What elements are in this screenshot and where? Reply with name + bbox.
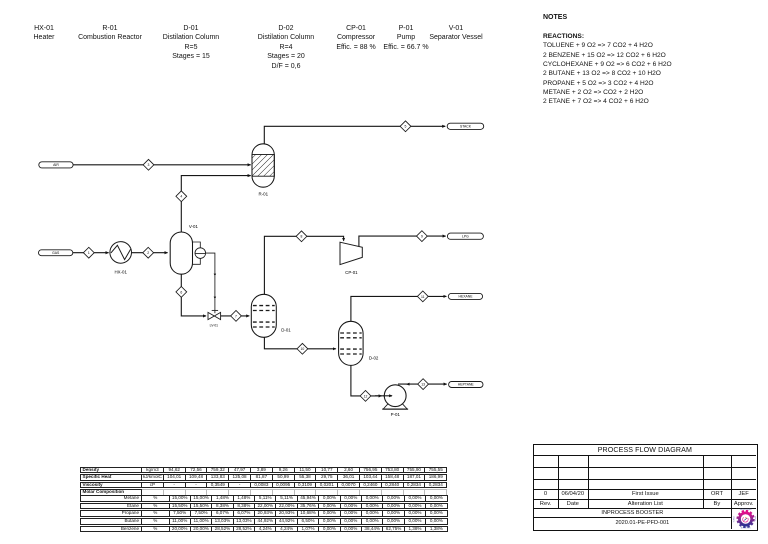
- svg-text:LPG: LPG: [462, 234, 469, 238]
- svg-text:PROC: PROC: [754, 516, 756, 522]
- svg-text:CP-01: CP-01: [345, 270, 358, 275]
- svg-text:1: 1: [88, 251, 90, 255]
- svg-text:HEXANE: HEXANE: [459, 295, 474, 299]
- svg-text:R-01: R-01: [259, 192, 269, 197]
- svg-text:5: 5: [405, 125, 407, 129]
- svg-text:BOOSTER: BOOSTER: [741, 528, 751, 530]
- svg-text:4: 4: [180, 195, 182, 199]
- svg-text:13: 13: [421, 383, 425, 387]
- svg-text:TURBO: TURBO: [734, 516, 736, 523]
- svg-text:D-01: D-01: [281, 328, 291, 333]
- svg-text:8: 8: [301, 235, 303, 239]
- svg-text:HX-01: HX-01: [114, 270, 127, 275]
- svg-text:3: 3: [148, 163, 150, 167]
- svg-text:6: 6: [180, 290, 182, 294]
- svg-text:2: 2: [147, 251, 149, 255]
- svg-text:12: 12: [364, 394, 368, 398]
- svg-text:V-01: V-01: [189, 224, 199, 229]
- svg-text:GAS: GAS: [52, 251, 60, 255]
- svg-text:9: 9: [421, 235, 423, 239]
- svg-text:STACK: STACK: [460, 125, 472, 129]
- svg-text:P-01: P-01: [391, 412, 401, 417]
- svg-text:LV-01: LV-01: [210, 323, 219, 327]
- svg-text:10: 10: [301, 347, 305, 351]
- svg-text:D-02: D-02: [369, 355, 379, 360]
- svg-text:HEPTANE: HEPTANE: [458, 383, 475, 387]
- svg-text:7: 7: [235, 314, 237, 318]
- svg-text:AIR: AIR: [53, 163, 59, 167]
- svg-text:11: 11: [421, 295, 425, 299]
